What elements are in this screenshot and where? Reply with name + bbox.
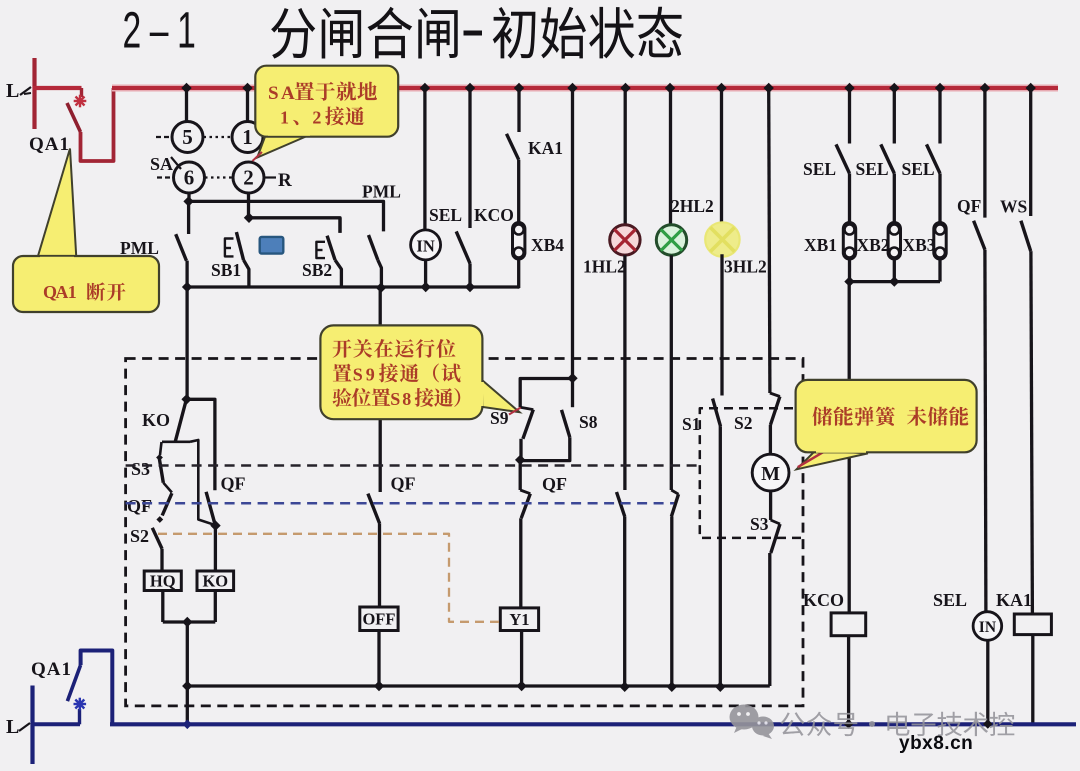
coil Y1 [500,608,538,631]
wire S2 to motor M [769,425,772,454]
svg-text:KA1: KA1 [528,138,563,158]
svg-text:6: 6 [184,166,195,190]
wire XB3 down [938,259,941,282]
svg-text:5: 5 [182,125,193,149]
contact PML left (NO) [187,201,190,234]
main navy bus [110,722,1076,726]
svg-text:QF: QF [127,496,152,516]
black rail junction dots [374,681,384,691]
svg-text:Y1: Y1 [509,610,529,629]
coil KO [197,571,234,591]
title dash [464,31,483,36]
wire bus to S9/S8 node [571,88,574,378]
callout text 储能弹簧未储能 [812,407,832,426]
coil HQ [144,571,181,591]
contact QF (middle, NO) [368,494,380,524]
SA contact terminal 2 [233,162,264,193]
callout bubble QA1断开 [13,256,159,312]
wire contact 2 to rail [247,193,250,218]
svg-text:SB1: SB1 [211,260,241,280]
svg-text:SB2: SB2 [302,260,332,280]
svg-text:S8: S8 [579,412,598,432]
svg-text:L: L [6,80,19,102]
svg-text:XB4: XB4 [531,235,564,255]
svg-text:2: 2 [243,166,254,190]
svg-text:PML: PML [362,182,401,202]
L+ terminal stub wire [32,58,36,129]
navy bus junction dots [183,720,193,730]
wire mid rail to KO node [185,287,188,399]
wire HQ coil down [161,591,164,623]
wire lamp 3HL2 down to S1 [720,254,723,395]
SA contact terminal 6 [174,162,205,193]
SA contact terminal 1 [232,122,263,153]
SA contact terminal 5 [172,122,203,153]
contact KA1 (NO) [517,88,520,132]
node KO junction [181,394,191,404]
XB group rail [850,280,941,283]
wire rail to bottom bus [186,686,189,724]
svg-text:S: S [268,83,279,104]
contact KO blade [175,400,186,442]
svg-text:8: 8 [402,389,411,409]
parallel QF branch (KO column) [187,399,215,490]
QA1 bottom star marker [74,703,87,705]
svg-text:KA1: KA1 [996,590,1032,610]
svg-text:IN: IN [979,619,996,636]
svg-text:2–1: 2–1 [123,3,205,60]
fuse link XB4 [513,223,525,260]
svg-text:2: 2 [312,108,321,128]
callout tail (QA1) [37,149,77,262]
svg-text:M: M [761,463,780,485]
fuse link XB3 [934,223,946,260]
svg-text:QF: QF [542,474,567,494]
wire KO coil down [214,591,217,623]
watermark wechat icon [730,705,775,740]
indicator blue block [260,237,284,254]
SA dashes row 5-1 [156,136,171,138]
svg-text:1: 1 [68,282,77,302]
contact S2 (motor, mirrored) [770,393,780,397]
wire OFF coil down [377,631,380,687]
wire bus to lamp 2HL2 [669,88,672,225]
contact S8 (NO) [571,379,574,408]
node S9/S8 top [567,373,577,383]
svg-text:R: R [278,170,292,191]
coil KA1 [1014,614,1051,635]
svg-text:S3: S3 [131,459,150,479]
svg-text:3HL2: 3HL2 [724,257,767,277]
breaker QA1 bottom (navy) [78,709,81,724]
motor M [752,454,789,491]
svg-text:QA1: QA1 [31,659,72,680]
svg-text:2HL2: 2HL2 [671,196,714,216]
HQ/KO join wire [163,620,216,623]
svg-text:IN: IN [416,236,434,255]
svg-text:QF: QF [391,474,416,494]
svg-text:WS: WS [1000,197,1027,217]
svg-text:KCO: KCO [803,590,844,610]
wire motor M to S3 [769,491,772,520]
svg-text:ybx8.cn: ybx8.cn [899,733,973,754]
svg-text:XB2: XB2 [857,235,890,255]
wire bus to SA contact 1 [246,88,249,122]
fuse link XB1 [843,223,855,260]
wire KA1 coil to bottom bus [1031,635,1034,724]
wire bus to IN lamp [423,88,426,230]
svg-text:A: A [55,282,68,302]
svg-text:SA: SA [150,154,173,174]
wire XB1 down [848,259,851,282]
contact SEL2 (NO) [893,88,896,144]
indicator IN (SEL) [411,230,441,260]
svg-text:1: 1 [242,125,253,149]
wire bus to lamp 3HL2 [720,88,723,224]
svg-text:L: L [6,716,19,738]
svg-text:S2: S2 [130,526,149,546]
contact QF (left chain) [163,483,172,493]
wire contact 6 to rail [187,193,190,201]
main red bus [112,85,1058,92]
svg-text:XB3: XB3 [903,235,936,255]
wire rail to KCO coil [848,282,851,613]
svg-text:KO: KO [142,410,170,430]
contact S3 (left chain) [160,442,162,455]
watermark middle dot [869,721,875,727]
contact KCO (NO) [468,88,471,228]
callout tail (M motor) [797,450,868,469]
callout bubble 开关在运行位置 [320,325,482,419]
svg-text:1: 1 [280,108,289,128]
L- terminal stub [30,686,34,765]
svg-text:QA1: QA1 [29,134,70,155]
wire KCO coil to bottom bus [847,636,850,724]
lamp 3HL2 (yellow) [705,222,739,256]
SA dashes row 6-2 [157,176,173,178]
title text 初始状态 [493,7,536,59]
wire IN to rail [424,260,427,287]
wire Y1 coil down [520,631,523,687]
dashed sub-enclosure (motor group) [700,408,803,538]
wire bus to contact S2 [769,88,770,393]
contact S3 (motor, mirrored) [771,520,780,524]
svg-text:SEL: SEL [902,159,935,179]
contact QF (right, NO) [983,88,986,218]
svg-text:S3: S3 [750,514,769,534]
link wire to QF-KO junction [190,440,216,525]
contact WS (NO) [1029,88,1032,216]
wire mid rail to QF contact [379,288,382,492]
mid rail junction dots [182,282,192,292]
wire lamp 1HL2 down [623,255,626,490]
S9 branch wire [520,379,572,408]
contact S2 (left chain) [152,528,162,549]
watermark text 公众号 [780,712,857,737]
contact SEL1 (NO) [848,88,851,144]
wire IN to bottom bus [986,640,989,724]
title text 分闸合闸 [271,8,315,59]
wire XB4 to rail [517,259,520,289]
coil KCO [831,613,866,636]
svg-text:KO: KO [202,572,228,591]
breaker QA1 top (red) [80,88,83,97]
dashed enclosure (mechanism box) [126,359,803,706]
svg-text:QF: QF [957,196,981,216]
svg-text:S1: S1 [682,414,700,434]
black return rail [187,684,770,687]
svg-text:SEL: SEL [856,159,889,179]
indicator IN (bottom SEL) [973,612,1002,641]
wire bus to SA contact 5 [185,88,188,122]
node QF branch bottom [210,520,220,530]
pushbutton SB1 [236,232,243,260]
wire join to black rail [186,622,189,686]
callout bubble 储能弹簧未储能 [796,380,977,452]
callout tail (S9) [482,380,520,412]
node rail from contact 2 (R) [244,213,254,223]
svg-text:S: S [353,365,363,385]
dashed link line (S2->Y1, tan) [158,534,499,622]
svg-text:SEL: SEL [803,159,836,179]
mid rail y287 [187,285,519,288]
node S9/S8 bottom [515,455,525,465]
svg-text:SEL: SEL [933,590,967,610]
wire to KO coil [214,526,217,571]
svg-text:S2: S2 [734,413,752,433]
svg-text:S: S [390,389,400,409]
node rail from contact 6 [183,196,193,206]
lamp 2HL2 (green) [656,225,686,255]
contact below 1HL2 (QF aux) [617,492,625,517]
contact SEL3 (NO) [938,88,941,144]
callout text 开关在运行位置S9接通 [333,339,352,357]
svg-text:1HL2: 1HL2 [583,257,626,277]
QA1 open-contact star marker [74,100,87,102]
contact PML right (NO) [369,235,378,260]
svg-text:HQ: HQ [150,572,176,591]
svg-text:XB1: XB1 [804,235,837,255]
svg-text:QF: QF [221,474,246,494]
lamp 1HL2 (red) [610,225,640,255]
svg-text:SEL: SEL [429,205,462,225]
callout bubble SA置于就地 [255,66,398,137]
wire XB2 down [893,259,896,282]
coil OFF [360,607,398,631]
svg-text:9: 9 [366,365,375,385]
node rail-to-bus link [182,681,192,691]
contact below 2HL2 (QF aux, mirrored) [671,490,678,494]
dashed link line (QF row, navy) [126,502,674,505]
contact S1 (NO) [713,399,721,427]
fuse link XB2 [888,223,900,260]
pushbutton SB2 [338,218,341,233]
callout tail (SA) [257,134,312,158]
dashed link line (S3 row) [126,464,698,467]
bus junction dots [181,83,191,93]
svg-text:OFF: OFF [362,610,395,629]
watermark text 电子技术控 [887,712,1014,736]
contact QF (below S9, mirrored) [519,460,522,490]
wire lamp 2HL2 down [670,255,673,490]
contact S9 (mirrored NO) [520,407,533,409]
wire bus to lamp 1HL2 [624,88,627,225]
svg-text:A: A [281,83,295,104]
svg-text:KCO: KCO [474,205,514,225]
